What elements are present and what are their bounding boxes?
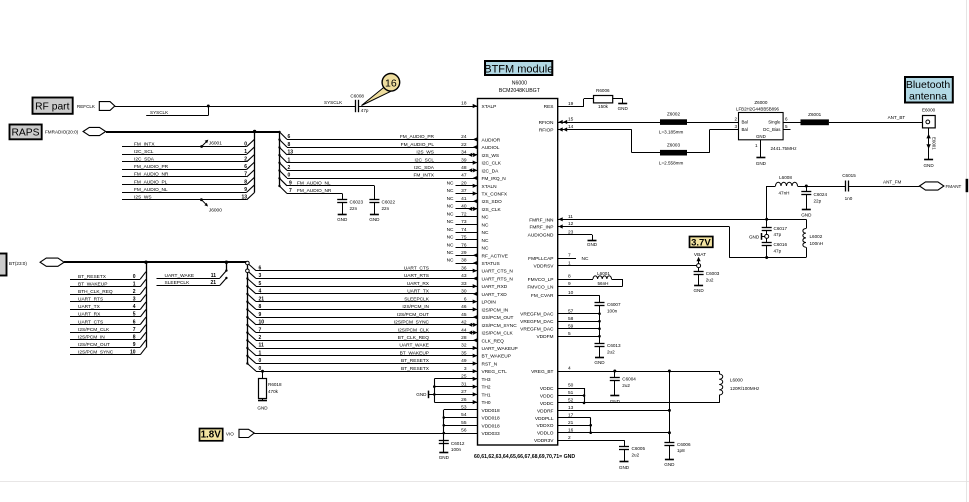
svg-text:L=2.558mm: L=2.558mm bbox=[659, 160, 684, 165]
svg-text:NC: NC bbox=[447, 211, 454, 217]
svg-text:UART_TX: UART_TX bbox=[407, 289, 430, 295]
svg-text:2: 2 bbox=[734, 117, 737, 122]
svg-text:Z6001: Z6001 bbox=[808, 112, 821, 117]
svg-text:C6023: C6023 bbox=[350, 200, 364, 205]
svg-text:7: 7 bbox=[259, 327, 262, 333]
svg-text:BT_RESETX: BT_RESETX bbox=[401, 366, 430, 372]
svg-text:45: 45 bbox=[461, 312, 467, 318]
svg-text:SLEEPCLK: SLEEPCLK bbox=[165, 280, 191, 286]
svg-text:UART_RX: UART_RX bbox=[78, 312, 101, 318]
svg-text:9: 9 bbox=[289, 181, 292, 187]
svg-text:7: 7 bbox=[568, 253, 571, 259]
svg-text:C6007: C6007 bbox=[607, 302, 621, 307]
svg-text:6: 6 bbox=[785, 117, 788, 122]
svg-text:C6003: C6003 bbox=[706, 271, 720, 276]
svg-text:FM_AUDIO_NR: FM_AUDIO_NR bbox=[134, 172, 169, 178]
svg-text:5: 5 bbox=[785, 124, 788, 129]
svg-text:I2S/PCM_SYNC: I2S/PCM_SYNC bbox=[78, 350, 114, 356]
svg-text:I2C_SDA: I2C_SDA bbox=[134, 157, 155, 163]
svg-text:16: 16 bbox=[385, 77, 397, 89]
svg-text:UART_RXD: UART_RXD bbox=[482, 284, 508, 290]
svg-text:I2S/PCM_SYNC: I2S/PCM_SYNC bbox=[482, 323, 518, 329]
svg-text:BT_WAKEUP: BT_WAKEUP bbox=[482, 354, 511, 360]
svg-text:antenna: antenna bbox=[909, 90, 947, 102]
svg-text:2: 2 bbox=[568, 435, 571, 441]
svg-text:4: 4 bbox=[133, 304, 136, 310]
svg-text:2: 2 bbox=[259, 335, 262, 341]
svg-text:4: 4 bbox=[568, 366, 571, 372]
svg-text:56: 56 bbox=[461, 428, 467, 434]
svg-text:FM_AUDIO_NL: FM_AUDIO_NL bbox=[134, 187, 168, 193]
svg-text:1: 1 bbox=[259, 350, 262, 356]
svg-text:11: 11 bbox=[211, 273, 217, 279]
svg-text:2: 2 bbox=[133, 289, 136, 295]
svg-text:8: 8 bbox=[133, 334, 136, 340]
svg-text:VDDC: VDDC bbox=[540, 401, 554, 407]
svg-text:FMRF_INP: FMRF_INP bbox=[530, 225, 554, 231]
svg-text:NC: NC bbox=[447, 227, 454, 233]
svg-text:0: 0 bbox=[259, 358, 262, 364]
svg-text:FMVCO_LN: FMVCO_LN bbox=[527, 285, 554, 291]
svg-text:1.8V: 1.8V bbox=[201, 430, 222, 441]
svg-text:VDDXO: VDDXO bbox=[536, 423, 553, 429]
svg-text:C6013: C6013 bbox=[607, 343, 621, 348]
svg-text:I2S_SDO: I2S_SDO bbox=[482, 199, 503, 205]
svg-text:FM_AUDIO_NL: FM_AUDIO_NL bbox=[297, 181, 331, 187]
svg-text:GND: GND bbox=[618, 106, 629, 111]
svg-text:Bal: Bal bbox=[742, 127, 748, 132]
svg-text:I2S/PCM_OUT: I2S/PCM_OUT bbox=[397, 312, 429, 318]
svg-text:8: 8 bbox=[244, 179, 247, 185]
svg-text:VDD018: VDD018 bbox=[482, 408, 500, 414]
svg-text:GND: GND bbox=[801, 212, 812, 217]
svg-text:8: 8 bbox=[259, 304, 262, 310]
svg-text:UART_WAKEUP: UART_WAKEUP bbox=[482, 346, 518, 352]
svg-text:FM_AUDIO_PR: FM_AUDIO_PR bbox=[134, 164, 169, 170]
svg-text:TH0: TH0 bbox=[482, 400, 491, 406]
svg-text:I2S/PCM_OUT: I2S/PCM_OUT bbox=[78, 342, 110, 348]
svg-text:LFB2H2G44BB5B896: LFB2H2G44BB5B896 bbox=[736, 106, 780, 111]
svg-text:8: 8 bbox=[568, 274, 571, 280]
svg-text:I2C_SDA: I2C_SDA bbox=[414, 165, 435, 171]
svg-text:150k: 150k bbox=[598, 104, 609, 109]
svg-text:LPOIN: LPOIN bbox=[482, 300, 497, 306]
svg-text:FM_AUDIO_PL: FM_AUDIO_PL bbox=[134, 179, 168, 185]
svg-text:470k: 470k bbox=[268, 389, 279, 394]
svg-text:GND: GND bbox=[756, 134, 766, 139]
svg-text:1: 1 bbox=[755, 143, 758, 148]
svg-text:NC: NC bbox=[447, 258, 454, 264]
svg-text:Single: Single bbox=[768, 120, 781, 125]
svg-text:VDDRSV: VDDRSV bbox=[534, 264, 555, 270]
svg-text:C6008: C6008 bbox=[350, 94, 364, 99]
svg-text:Z6002: Z6002 bbox=[667, 112, 680, 117]
svg-text:18: 18 bbox=[461, 101, 467, 107]
svg-text:13: 13 bbox=[241, 195, 247, 201]
svg-text:74: 74 bbox=[461, 227, 467, 233]
svg-text:11: 11 bbox=[259, 343, 265, 349]
svg-text:VDDRF: VDDRF bbox=[537, 408, 554, 414]
svg-text:AUDIOGND: AUDIOGND bbox=[528, 233, 554, 239]
svg-text:VDDFM: VDDFM bbox=[536, 334, 553, 340]
svg-text:GND: GND bbox=[749, 234, 760, 239]
svg-text:Bal: Bal bbox=[742, 120, 748, 125]
svg-text:FM_CVAR: FM_CVAR bbox=[531, 293, 554, 299]
svg-text:6: 6 bbox=[244, 164, 247, 170]
svg-text:J6000: J6000 bbox=[209, 207, 222, 213]
svg-text:C6016: C6016 bbox=[774, 242, 788, 247]
svg-text:60,61,62,63,64,65,66,67,68,69,: 60,61,62,63,64,65,66,67,68,69,70,71= GND bbox=[474, 454, 575, 460]
svg-text:GND: GND bbox=[439, 455, 450, 460]
svg-text:NC: NC bbox=[482, 222, 489, 228]
svg-text:SLEEPCLK: SLEEPCLK bbox=[404, 296, 430, 302]
svg-text:22n: 22n bbox=[382, 206, 390, 211]
svg-text:C6004: C6004 bbox=[622, 377, 636, 382]
svg-text:VREGFM_DAC: VREGFM_DAC bbox=[520, 312, 554, 318]
svg-text:5: 5 bbox=[259, 281, 262, 287]
svg-text:FM_AUDIO_PR: FM_AUDIO_PR bbox=[400, 134, 435, 140]
svg-text:10: 10 bbox=[130, 350, 136, 356]
svg-text:I2S/PCM_IN: I2S/PCM_IN bbox=[78, 334, 105, 340]
svg-text:100n: 100n bbox=[451, 447, 462, 452]
svg-text:15: 15 bbox=[568, 117, 574, 123]
svg-text:100n: 100n bbox=[607, 308, 618, 313]
svg-text:C6015: C6015 bbox=[842, 173, 856, 178]
svg-text:0: 0 bbox=[133, 274, 136, 280]
svg-text:L6002: L6002 bbox=[810, 234, 823, 239]
svg-text:GND: GND bbox=[756, 161, 767, 166]
svg-text:UART_WAKE: UART_WAKE bbox=[165, 273, 195, 279]
svg-text:I2S/PCM_CLK: I2S/PCM_CLK bbox=[78, 327, 110, 333]
svg-text:9: 9 bbox=[244, 187, 247, 193]
svg-text:8: 8 bbox=[288, 142, 291, 148]
svg-text:Bluetooth: Bluetooth bbox=[906, 79, 951, 91]
svg-text:NC: NC bbox=[482, 230, 489, 236]
svg-text:I2C_SCL: I2C_SCL bbox=[134, 149, 154, 155]
svg-text:I2C_SCL: I2C_SCL bbox=[415, 157, 435, 163]
svg-text:FMPLLCAP: FMPLLCAP bbox=[528, 256, 553, 262]
svg-text:UART_TXD: UART_TXD bbox=[482, 292, 508, 298]
svg-text:3: 3 bbox=[133, 297, 136, 303]
svg-text:7: 7 bbox=[289, 188, 292, 194]
svg-text:GND: GND bbox=[619, 465, 630, 470]
svg-text:FM_AUDIO_NR: FM_AUDIO_NR bbox=[297, 188, 332, 194]
svg-text:6: 6 bbox=[133, 319, 136, 325]
svg-text:22n: 22n bbox=[350, 206, 358, 211]
svg-text:GND: GND bbox=[416, 392, 427, 397]
svg-text:N6000: N6000 bbox=[512, 80, 527, 86]
svg-text:DC_Bias: DC_Bias bbox=[763, 127, 781, 132]
svg-text:2u2: 2u2 bbox=[632, 452, 640, 457]
svg-text:2u2: 2u2 bbox=[607, 349, 615, 354]
svg-text:BT_WAKEUP: BT_WAKEUP bbox=[400, 350, 429, 356]
svg-text:ANT_FM: ANT_FM bbox=[883, 179, 902, 184]
svg-text:RFION: RFION bbox=[539, 120, 554, 126]
svg-text:1p8: 1p8 bbox=[677, 448, 685, 453]
svg-text:I2S/PCM_CLK: I2S/PCM_CLK bbox=[482, 331, 514, 337]
svg-text:BTH_CLK_REQ: BTH_CLK_REQ bbox=[78, 289, 113, 295]
svg-text:XTALP: XTALP bbox=[482, 104, 497, 110]
svg-text:Z6000: Z6000 bbox=[754, 100, 767, 105]
svg-text:VDDR3V: VDDR3V bbox=[534, 438, 554, 444]
svg-text:NC: NC bbox=[447, 242, 454, 248]
svg-text:0: 0 bbox=[244, 141, 247, 147]
svg-text:VDDC: VDDC bbox=[540, 386, 554, 392]
svg-text:1n0: 1n0 bbox=[845, 196, 853, 201]
svg-text:C6017: C6017 bbox=[774, 226, 788, 231]
svg-text:21: 21 bbox=[210, 280, 216, 286]
svg-text:AUDIOL: AUDIOL bbox=[482, 145, 500, 151]
svg-text:NC: NC bbox=[482, 215, 489, 221]
svg-text:UART_RTS: UART_RTS bbox=[404, 273, 429, 279]
svg-text:10: 10 bbox=[259, 320, 265, 326]
svg-text:UART_TX: UART_TX bbox=[78, 304, 101, 310]
svg-text:56nH: 56nH bbox=[598, 281, 609, 286]
svg-text:I2S_WS: I2S_WS bbox=[134, 195, 152, 201]
svg-text:0: 0 bbox=[288, 173, 291, 179]
svg-text:GND: GND bbox=[337, 217, 348, 222]
svg-text:I2S_CLK: I2S_CLK bbox=[482, 207, 502, 213]
svg-text:C6022: C6022 bbox=[382, 200, 396, 205]
svg-text:NC: NC bbox=[447, 181, 454, 187]
svg-text:NC: NC bbox=[447, 219, 454, 225]
svg-text:I2S/PCM_SYNC: I2S/PCM_SYNC bbox=[394, 320, 430, 326]
svg-text:BT(23:0): BT(23:0) bbox=[9, 261, 27, 266]
svg-text:UART_CTS_N: UART_CTS_N bbox=[482, 269, 514, 275]
svg-text:7: 7 bbox=[133, 327, 136, 333]
svg-text:NC: NC bbox=[447, 188, 454, 194]
svg-text:BT_CLK_REQ: BT_CLK_REQ bbox=[398, 335, 429, 341]
svg-text:VDD033: VDD033 bbox=[482, 431, 500, 437]
svg-text:2u2: 2u2 bbox=[622, 383, 630, 388]
svg-text:GND: GND bbox=[664, 462, 675, 467]
svg-text:26: 26 bbox=[461, 397, 467, 403]
svg-text:I2C_DA: I2C_DA bbox=[482, 168, 500, 174]
svg-text:GND: GND bbox=[369, 217, 380, 222]
svg-text:21: 21 bbox=[259, 296, 265, 302]
svg-text:L=3.185mm: L=3.185mm bbox=[659, 129, 684, 134]
svg-text:GND: GND bbox=[610, 399, 621, 404]
svg-text:C6012: C6012 bbox=[451, 441, 465, 446]
svg-text:I2S_WS: I2S_WS bbox=[482, 153, 500, 159]
svg-text:NC: NC bbox=[447, 235, 454, 241]
svg-text:NC: NC bbox=[482, 246, 489, 252]
svg-text:47nH: 47nH bbox=[779, 191, 790, 196]
svg-text:NC: NC bbox=[447, 196, 454, 202]
svg-text:VREGFM_DAC: VREGFM_DAC bbox=[520, 327, 554, 333]
svg-text:Z6003: Z6003 bbox=[667, 142, 680, 147]
svg-text:NC: NC bbox=[482, 238, 489, 244]
svg-text:RST_N: RST_N bbox=[482, 362, 498, 368]
svg-text:UART_RX: UART_RX bbox=[407, 281, 430, 287]
svg-text:I2S/PCM_IN: I2S/PCM_IN bbox=[402, 304, 429, 310]
svg-text:C6006: C6006 bbox=[677, 442, 691, 447]
svg-text:BT_RESETX: BT_RESETX bbox=[401, 358, 430, 364]
svg-text:BTFM module: BTFM module bbox=[484, 64, 553, 76]
svg-text:1: 1 bbox=[244, 149, 247, 155]
svg-text:2: 2 bbox=[244, 157, 247, 163]
svg-text:50: 50 bbox=[568, 383, 574, 389]
svg-text:FMVCO_LP: FMVCO_LP bbox=[528, 277, 554, 283]
svg-text:TH3: TH3 bbox=[482, 377, 491, 383]
svg-text:RF_ACTIVE: RF_ACTIVE bbox=[482, 253, 508, 259]
svg-text:VBAT: VBAT bbox=[694, 252, 706, 258]
svg-text:UART_CTS: UART_CTS bbox=[404, 265, 429, 271]
svg-text:100nH: 100nH bbox=[810, 241, 824, 246]
svg-text:3: 3 bbox=[734, 124, 737, 129]
svg-text:L6001: L6001 bbox=[597, 271, 610, 276]
svg-text:FMRADIO(20:0): FMRADIO(20:0) bbox=[45, 130, 79, 135]
svg-text:REFCLK: REFCLK bbox=[77, 104, 96, 109]
svg-text:GND: GND bbox=[923, 163, 934, 168]
svg-text:I2S/PCM_CLK: I2S/PCM_CLK bbox=[398, 327, 430, 333]
svg-text:2441.75MHz: 2441.75MHz bbox=[771, 146, 798, 151]
svg-text:TX_CONFX: TX_CONFX bbox=[482, 192, 508, 198]
svg-text:NC: NC bbox=[447, 204, 454, 210]
svg-text:RF part: RF part bbox=[35, 102, 69, 113]
svg-text:1: 1 bbox=[133, 282, 136, 288]
svg-text:BT_WAKEUP: BT_WAKEUP bbox=[78, 282, 107, 288]
svg-text:UART_WAKE: UART_WAKE bbox=[399, 343, 429, 349]
svg-text:L6000: L6000 bbox=[730, 377, 743, 382]
svg-text:7: 7 bbox=[244, 172, 247, 178]
svg-text:UART_RTS: UART_RTS bbox=[78, 297, 103, 303]
svg-text:VREG_CTL: VREG_CTL bbox=[482, 369, 508, 375]
svg-text:38: 38 bbox=[461, 258, 467, 264]
svg-text:3: 3 bbox=[259, 273, 262, 279]
svg-text:VDDPLL: VDDPLL bbox=[535, 416, 554, 422]
svg-text:R6006: R6006 bbox=[596, 88, 610, 93]
svg-text:C6005: C6005 bbox=[632, 446, 646, 451]
svg-text:47p: 47p bbox=[361, 108, 369, 113]
svg-text:BT_RESETX: BT_RESETX bbox=[78, 274, 107, 280]
svg-text:GND: GND bbox=[587, 242, 598, 247]
svg-text:I2S/PCM_OUT: I2S/PCM_OUT bbox=[482, 315, 514, 321]
svg-text:ANT_BT: ANT_BT bbox=[888, 115, 906, 120]
svg-text:GND: GND bbox=[693, 288, 704, 293]
svg-text:9: 9 bbox=[133, 342, 136, 348]
svg-text:R6018: R6018 bbox=[268, 382, 282, 387]
svg-text:NC: NC bbox=[447, 250, 454, 256]
svg-text:6: 6 bbox=[259, 265, 262, 271]
svg-text:47p: 47p bbox=[774, 248, 782, 253]
svg-text:STATUS: STATUS bbox=[482, 261, 500, 267]
svg-text:E6000: E6000 bbox=[922, 108, 936, 113]
svg-text:TH2: TH2 bbox=[482, 385, 491, 391]
svg-text:NC: NC bbox=[582, 256, 589, 262]
svg-text:FM_INTX: FM_INTX bbox=[134, 141, 155, 147]
svg-text:VDD018: VDD018 bbox=[482, 423, 500, 429]
svg-text:I2S/PCM_IN: I2S/PCM_IN bbox=[482, 307, 509, 313]
svg-text:GND: GND bbox=[594, 360, 605, 365]
svg-text:E6001: E6001 bbox=[931, 137, 936, 150]
svg-text:32: 32 bbox=[461, 343, 467, 349]
svg-text:J6001: J6001 bbox=[209, 140, 222, 146]
svg-text:120R/100MHz: 120R/100MHz bbox=[730, 386, 760, 391]
svg-text:2: 2 bbox=[288, 165, 291, 171]
svg-text:RAPS: RAPS bbox=[11, 127, 39, 138]
svg-text:VDD018: VDD018 bbox=[482, 416, 500, 422]
svg-text:AUDIOR: AUDIOR bbox=[482, 137, 501, 143]
svg-text:SYSCLK: SYSCLK bbox=[150, 110, 169, 115]
svg-text:FM_INTX: FM_INTX bbox=[413, 173, 434, 179]
svg-text:22p: 22p bbox=[814, 199, 822, 204]
svg-text:9: 9 bbox=[259, 312, 262, 318]
svg-text:GND: GND bbox=[257, 406, 268, 411]
svg-text:VREG_BT: VREG_BT bbox=[531, 369, 553, 375]
svg-text:L6008: L6008 bbox=[779, 175, 792, 180]
svg-text:I2C_CLK: I2C_CLK bbox=[482, 161, 502, 167]
svg-text:RES: RES bbox=[544, 104, 554, 110]
svg-text:FMANT: FMANT bbox=[946, 184, 962, 189]
svg-text:UART_RTS_N: UART_RTS_N bbox=[482, 277, 514, 283]
svg-text:1: 1 bbox=[288, 157, 291, 163]
svg-text:XTALN: XTALN bbox=[482, 184, 498, 190]
svg-text:47: 47 bbox=[461, 173, 467, 179]
svg-text:I2S_WS: I2S_WS bbox=[416, 150, 434, 156]
svg-text:BCM2048KUBGT: BCM2048KUBGT bbox=[499, 88, 541, 94]
svg-text:FMRF_INN: FMRF_INN bbox=[529, 217, 554, 223]
svg-text:22: 22 bbox=[461, 142, 467, 148]
svg-text:4: 4 bbox=[259, 289, 262, 295]
svg-text:UART_CTS: UART_CTS bbox=[78, 319, 103, 325]
svg-text:C6024: C6024 bbox=[814, 192, 828, 197]
svg-text:VREGFM_DAC: VREGFM_DAC bbox=[520, 319, 554, 325]
svg-text:SYSCLK: SYSCLK bbox=[324, 100, 343, 105]
svg-text:VDDLO: VDDLO bbox=[537, 431, 554, 437]
svg-text:VIO: VIO bbox=[226, 432, 234, 437]
svg-text:RFIOP: RFIOP bbox=[539, 128, 554, 134]
svg-text:6: 6 bbox=[288, 134, 291, 140]
svg-text:2u2: 2u2 bbox=[706, 277, 714, 282]
svg-text:47p: 47p bbox=[774, 232, 782, 237]
svg-text:3.7V: 3.7V bbox=[691, 237, 711, 248]
svg-text:FM_IRQ_N: FM_IRQ_N bbox=[482, 176, 507, 182]
svg-text:VDDC: VDDC bbox=[540, 394, 554, 400]
svg-text:TH1: TH1 bbox=[482, 392, 491, 398]
svg-text:FM_AUDIO_PL: FM_AUDIO_PL bbox=[401, 142, 435, 148]
svg-text:13: 13 bbox=[288, 150, 294, 156]
svg-text:5: 5 bbox=[133, 312, 136, 318]
svg-text:CLK_REQ: CLK_REQ bbox=[482, 338, 505, 344]
